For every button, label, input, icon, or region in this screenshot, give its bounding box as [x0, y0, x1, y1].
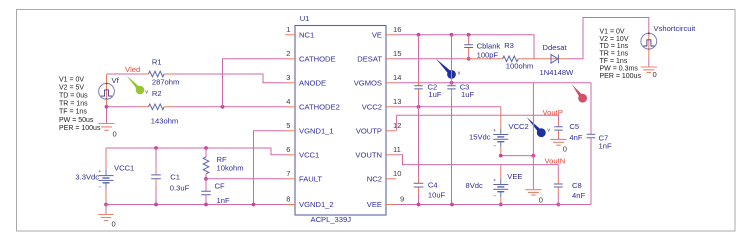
svg-text:100pF: 100pF: [477, 51, 499, 60]
svg-text:12: 12: [393, 121, 401, 130]
pulse source Vshortcircuit: [641, 32, 657, 50]
junction C1 bottom: [154, 203, 158, 207]
svg-text:TD = 1ns: TD = 1ns: [600, 43, 629, 50]
wire R1 to jog: [174, 74, 285, 83]
wire diode to Vshort: [570, 18, 649, 59]
wire Vf top stem: [106, 75, 108, 84]
pin 11 VOUTN: [386, 154, 396, 156]
pin 5 VGND1_1: [285, 130, 295, 132]
wire 15V bottom stem: [500, 148, 502, 156]
probe marker desat: [436, 59, 456, 79]
wire Vled node: [107, 73, 139, 75]
ground 0 under Vshortcircuit: [641, 67, 657, 73]
pin 15 DESAT: [386, 58, 396, 60]
wire Vf to ground: [106, 107, 108, 124]
wire VEE bottom stem: [500, 198, 502, 205]
svg-text:U1: U1: [300, 14, 310, 23]
svg-text:15Vdc: 15Vdc: [469, 133, 491, 142]
wire cathode riser: [223, 59, 286, 107]
svg-text:1: 1: [286, 25, 290, 34]
pin 4 CATHODE2: [285, 106, 295, 108]
junction gnd rail left: [104, 203, 108, 207]
svg-text:CF: CF: [215, 182, 225, 191]
junction gnd link battery: [499, 154, 503, 158]
wire left ground rail: [106, 204, 285, 206]
capacitor C1 pin top: [155, 169, 157, 175]
diode Ddesat: [551, 54, 558, 63]
svg-text:0: 0: [113, 129, 117, 138]
capacitor C3 pins: [451, 80, 453, 95]
svg-text:V1 = 0V: V1 = 0V: [600, 28, 625, 35]
svg-text:4nF: 4nF: [572, 191, 585, 200]
svg-text:8: 8: [286, 195, 290, 204]
wire VGMOS: [396, 82, 591, 84]
dc source VEE 8Vdc: [493, 179, 508, 198]
svg-text:NC1: NC1: [299, 30, 314, 39]
wire DESAT: [396, 58, 462, 60]
pulse source Vf: [99, 82, 115, 100]
svg-text:v: v: [458, 71, 461, 77]
wire VOUTP: [397, 115, 559, 131]
wire Cblank stem top: [468, 35, 470, 39]
ground 0 under Vf: [98, 124, 114, 131]
junction VE C2: [417, 33, 421, 37]
wire C5 bottom: [558, 136, 560, 139]
svg-text:1N4148W: 1N4148W: [540, 68, 575, 77]
wire VE: [396, 35, 534, 59]
pin 9 VEE: [386, 204, 396, 206]
svg-text:CATHODE2: CATHODE2: [299, 102, 340, 111]
probe marker VCC2: [527, 117, 546, 137]
svg-text:VGND1_1: VGND1_1: [299, 126, 334, 135]
svg-text:VEE: VEE: [507, 172, 522, 181]
svg-text:VEE: VEE: [367, 200, 382, 209]
capacitor C3 column: [451, 35, 453, 205]
svg-text:6: 6: [286, 145, 290, 154]
svg-text:R2: R2: [152, 89, 162, 98]
diode Ddesat leads: [534, 58, 570, 60]
svg-text:4nF: 4nF: [569, 133, 582, 142]
svg-text:0.3uF: 0.3uF: [170, 183, 190, 192]
capacitor C7: [587, 134, 595, 138]
junction C1 top: [154, 146, 158, 150]
pin 1 NC1: [285, 34, 295, 36]
wire Vf to R2: [107, 106, 139, 108]
svg-text:11: 11: [393, 145, 401, 154]
svg-text:VoutP: VoutP: [543, 108, 563, 117]
wire VCC1 stem top: [105, 148, 107, 170]
wire R2 to pin4: [174, 106, 285, 108]
capacitor C2: [414, 86, 422, 89]
svg-text:TR = 1ns: TR = 1ns: [59, 101, 88, 108]
svg-text:VE: VE: [372, 30, 382, 39]
probe marker Vled: [127, 76, 145, 95]
resistor R2 leads: [139, 106, 174, 108]
pin 7 FAULT: [285, 178, 295, 180]
svg-text:NC2: NC2: [367, 174, 382, 183]
svg-text:C1: C1: [170, 173, 180, 182]
wire C1 stem bottom: [155, 185, 157, 205]
resistor R1 leads: [139, 73, 174, 75]
svg-text:16: 16: [393, 25, 401, 34]
svg-text:0: 0: [539, 195, 543, 204]
capacitor C8: [554, 184, 563, 187]
svg-text:ANODE: ANODE: [299, 78, 326, 87]
capacitor C5: [554, 127, 562, 130]
svg-text:100ohm: 100ohm: [506, 62, 533, 71]
svg-text:0: 0: [563, 145, 567, 154]
svg-text:V2 = 10V: V2 = 10V: [600, 36, 629, 43]
svg-text:0: 0: [653, 70, 657, 79]
wire VCC1 rail: [106, 148, 285, 155]
svg-text:C4: C4: [428, 181, 438, 190]
capacitor C4: [414, 183, 424, 187]
svg-text:C8: C8: [572, 181, 582, 190]
junction VE Cblank: [467, 33, 471, 37]
wire Vf bottom stem: [106, 99, 108, 107]
junction rail C2col: [417, 203, 421, 207]
wire Cblank stem bottom: [468, 53, 470, 59]
wire VCC2 stem: [500, 107, 502, 129]
dc source VCC2 15Vdc: [493, 129, 508, 148]
pin 8 VGND1_2: [285, 204, 295, 206]
junction CF bottom: [204, 203, 208, 207]
resistor RF: [203, 157, 209, 174]
pin 2 CATHODE: [285, 58, 295, 60]
svg-text:5: 5: [286, 121, 290, 130]
resistor R3 leads: [462, 58, 534, 60]
capacitor C1 pin bottom: [155, 179, 157, 185]
svg-text:v: v: [547, 127, 550, 133]
wire VCC1 gnd stem: [105, 205, 107, 215]
wire C7 column top: [590, 83, 592, 134]
pin 3 ANODE: [285, 82, 295, 84]
junction cathode node: [221, 105, 225, 109]
wire VOUTN: [396, 155, 558, 178]
probe marker VoutP: [572, 85, 587, 103]
junction RF CF FAULT: [204, 177, 208, 181]
resistor R1: [149, 71, 165, 77]
svg-text:VCC1: VCC1: [114, 164, 134, 173]
svg-text:VOUTP: VOUTP: [356, 126, 382, 135]
svg-text:VCC2: VCC2: [362, 102, 382, 111]
resistor R3: [503, 56, 519, 62]
svg-text:10: 10: [393, 169, 401, 178]
svg-text:V2 = 5V: V2 = 5V: [59, 85, 84, 92]
capacitor Cblank: [464, 45, 473, 48]
junction VEE rail: [499, 203, 503, 207]
ground 0 under C5: [550, 139, 566, 145]
svg-text:1uF: 1uF: [461, 90, 474, 99]
svg-text:VoutN: VoutN: [545, 157, 566, 166]
ground 0 center: [525, 190, 541, 195]
capacitor Cblank pin top: [468, 39, 470, 45]
wire VCC2: [396, 106, 501, 108]
wire C8 bottom: [557, 193, 559, 205]
wire FAULT: [206, 178, 285, 180]
wire C1 stem top: [155, 148, 157, 169]
svg-text:VCC2: VCC2: [509, 122, 529, 131]
svg-text:R3: R3: [504, 41, 514, 50]
wire VCC1 stem bottom: [105, 189, 107, 205]
svg-text:TF = 1ns: TF = 1ns: [600, 58, 628, 65]
junction VCC2 C2col: [417, 105, 421, 109]
pin 13 VCC2: [386, 106, 396, 108]
wire Vshort gnd stem: [648, 59, 650, 67]
capacitor Cblank pin bottom: [468, 48, 470, 54]
junction VGMOS C3col: [450, 81, 454, 85]
svg-text:VCC1: VCC1: [299, 150, 319, 159]
capacitor C2 column upper: [418, 35, 420, 80]
svg-text:15: 15: [393, 49, 401, 58]
svg-text:1nF: 1nF: [599, 142, 612, 151]
pin 16 VE: [386, 34, 396, 36]
svg-text:FAULT: FAULT: [299, 174, 322, 183]
svg-text:13: 13: [393, 97, 401, 106]
capacitor C8 pins: [557, 178, 559, 193]
svg-text:CATHODE: CATHODE: [299, 54, 336, 63]
svg-text:10uF: 10uF: [428, 191, 446, 200]
capacitor C3: [447, 86, 455, 89]
svg-text:2: 2: [286, 49, 290, 58]
svg-text:C5: C5: [569, 122, 579, 131]
wire RF bottom to FAULT: [205, 174, 207, 191]
svg-text:DESAT: DESAT: [357, 54, 382, 63]
capacitor CF: [201, 191, 211, 195]
pin 10 NC2: [386, 178, 396, 180]
svg-text:v: v: [145, 90, 148, 96]
svg-text:Vf: Vf: [112, 76, 120, 85]
capacitor C4 pins: [418, 177, 420, 193]
op-amp U1 ACPL_339J body: [295, 26, 386, 216]
wire gnd link: [501, 155, 534, 157]
svg-text:PW = 0.3ms: PW = 0.3ms: [600, 66, 639, 73]
capacitor C2 pins: [418, 80, 420, 95]
resistor R2: [149, 104, 165, 110]
svg-text:7: 7: [286, 169, 290, 178]
svg-text:Cblank: Cblank: [477, 42, 501, 51]
svg-text:TR = 1ns: TR = 1ns: [600, 51, 629, 58]
svg-text:Vled: Vled: [125, 65, 140, 74]
svg-text:3.3Vdc: 3.3Vdc: [75, 173, 99, 182]
svg-text:9: 9: [400, 195, 404, 204]
wire VEE rail main: [396, 204, 591, 206]
junction RF top: [204, 146, 208, 150]
wire center gnd stem: [532, 156, 534, 190]
pin 12 VOUTP: [386, 130, 396, 132]
wire RF stem top: [205, 148, 207, 157]
pin 6 VCC1: [285, 154, 295, 156]
junction gnd link: [532, 154, 536, 158]
pin 14 VGMOS: [386, 82, 396, 84]
svg-text:143ohm: 143ohm: [151, 117, 178, 126]
svg-text:4: 4: [286, 97, 290, 106]
svg-text:1nF: 1nF: [217, 196, 230, 205]
svg-text:PER = 100us: PER = 100us: [59, 125, 101, 132]
wire CF stem bottom: [205, 195, 207, 205]
svg-text:TF = 1ns: TF = 1ns: [59, 109, 87, 116]
svg-text:PW = 50us: PW = 50us: [59, 117, 94, 124]
svg-text:VGMOS: VGMOS: [354, 78, 382, 87]
wire VGND1_1: [254, 131, 286, 206]
capacitor C2 column lower: [418, 95, 420, 204]
svg-text:1uF: 1uF: [428, 90, 441, 99]
svg-text:ACPL_339J: ACPL_339J: [311, 215, 352, 224]
junction Vf bottom: [105, 105, 109, 109]
junction rail C3col: [450, 203, 454, 207]
capacitor C5 pins: [558, 121, 560, 137]
svg-text:R1: R1: [152, 58, 162, 67]
junction VE C3: [450, 33, 454, 37]
wire C7 bottom: [590, 138, 592, 205]
svg-text:VOUTN: VOUTN: [355, 150, 382, 159]
svg-text:Vshortcircuit: Vshortcircuit: [654, 24, 697, 33]
svg-text:VGND1_2: VGND1_2: [299, 200, 334, 209]
svg-text:10kohm: 10kohm: [217, 164, 244, 173]
svg-text:8Vdc: 8Vdc: [466, 181, 484, 190]
wire gnd column: [532, 83, 534, 156]
svg-text:Ddesat: Ddesat: [543, 43, 568, 52]
dc source VCC1 3.3Vdc: [99, 170, 114, 189]
svg-text:V1 = 0V: V1 = 0V: [59, 77, 84, 84]
svg-text:0: 0: [112, 219, 116, 228]
ground 0 under VCC1: [98, 215, 114, 221]
svg-text:3: 3: [286, 73, 290, 82]
svg-text:TD = 0us: TD = 0us: [59, 93, 88, 100]
svg-text:14: 14: [393, 73, 401, 82]
svg-text:287ohm: 287ohm: [152, 78, 179, 87]
wire Vshort bottom stem: [648, 49, 650, 60]
junction DESAT Cblank: [467, 57, 471, 61]
junction VGND1_1 gnd: [252, 203, 256, 207]
wire VEE top stem: [500, 165, 502, 179]
junction C8 rail: [556, 203, 560, 207]
capacitor C1: [151, 175, 161, 179]
svg-text:PER = 100us: PER = 100us: [600, 73, 642, 80]
